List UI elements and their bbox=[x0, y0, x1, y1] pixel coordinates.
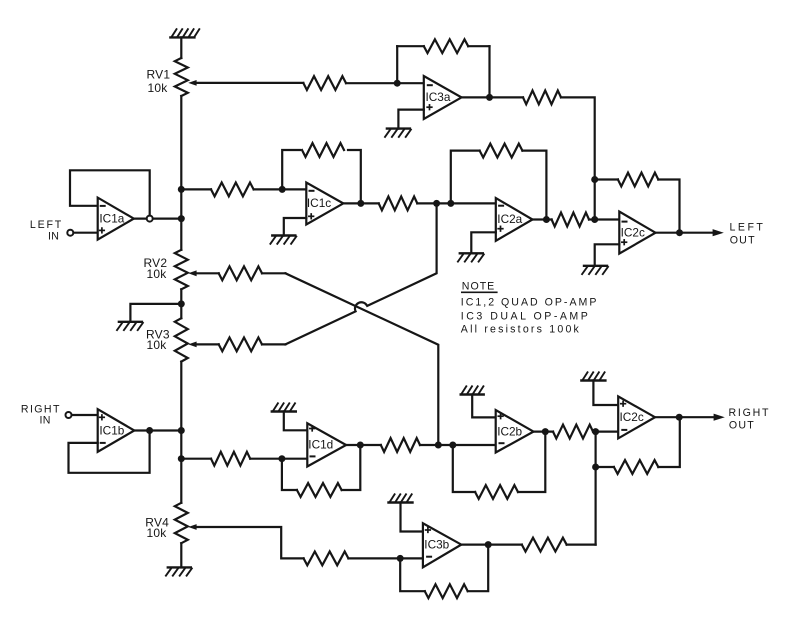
resistor IC2c-right feedback bbox=[614, 460, 658, 474]
svg-text:IC3a: IC3a bbox=[426, 90, 451, 104]
wire feedback to output bbox=[658, 180, 679, 233]
wire summing node to IC2c-right inverting input bbox=[596, 431, 619, 433]
node IC2b input from crossover bbox=[435, 442, 442, 449]
node IC2a feedback tap input side bbox=[447, 200, 454, 207]
ground middle left bbox=[119, 321, 142, 323]
svg-text:RIGHT: RIGHT bbox=[729, 407, 771, 419]
wire IC1c feedback up bbox=[282, 150, 300, 189]
wire IC3a output bbox=[462, 96, 524, 98]
resistor IC1d feedback bbox=[297, 483, 342, 497]
wire IC2c-right non-inverting to ground bbox=[593, 381, 618, 406]
ground IC3b bbox=[389, 501, 413, 503]
svg-text:All resistors 100k: All resistors 100k bbox=[461, 323, 581, 335]
svg-text:IC2b: IC2b bbox=[497, 424, 522, 438]
svg-text:10k: 10k bbox=[148, 81, 169, 95]
svg-text:OUT: OUT bbox=[729, 419, 755, 431]
ground IC2c left bbox=[584, 265, 607, 267]
resistor IC2a feedback bbox=[480, 144, 523, 158]
node IC2a input from crossover bbox=[433, 200, 440, 207]
svg-text:IC3 DUAL OP-AMP: IC3 DUAL OP-AMP bbox=[461, 311, 591, 323]
wire IC2c-right feedback bbox=[596, 466, 614, 468]
ground IC1c bbox=[272, 234, 295, 236]
node IC1d inverting input bbox=[278, 455, 285, 462]
wire IC2b output bbox=[534, 431, 554, 433]
node feedback tap IC2c left bbox=[591, 176, 598, 183]
resistor IC1d output to IC2b bbox=[381, 438, 420, 452]
wire IC2a feedback up bbox=[451, 151, 480, 204]
svg-text:IC2a: IC2a bbox=[497, 212, 522, 226]
svg-text:IC2c: IC2c bbox=[620, 410, 644, 424]
ground bottom (below RV4) bbox=[168, 566, 191, 568]
wire LEFT IN to IC1a non-inverting input bbox=[74, 232, 98, 234]
potentiometer RV1 bbox=[175, 58, 188, 96]
node IC1b feedback tap bbox=[146, 427, 153, 434]
wire resistor to summing node bbox=[589, 218, 595, 220]
wire diagonal RV3 to IC2a with hop (crossover) bbox=[285, 203, 436, 344]
svg-text:RV1: RV1 bbox=[147, 67, 171, 81]
wire ground to RV1 bbox=[180, 37, 182, 58]
node bus to IC1d resistor bbox=[178, 455, 185, 462]
resistor IC3b output to summing node bbox=[522, 538, 567, 552]
node IC3a output bbox=[486, 94, 493, 101]
wire IC2b feedback down bbox=[453, 445, 475, 492]
wire IC1a output to bus bbox=[134, 218, 182, 220]
op-amp IC3a bbox=[424, 76, 462, 119]
ground IC1d bbox=[272, 410, 296, 412]
svg-text:10k: 10k bbox=[147, 526, 168, 540]
op-amp IC1a bbox=[98, 198, 134, 240]
resistor IC2b feedback bbox=[475, 485, 518, 499]
resistor RV3 wiper bbox=[219, 338, 262, 352]
resistor IC2b output to summing node bbox=[553, 425, 593, 439]
svg-text:OUT: OUT bbox=[730, 234, 756, 246]
wire bus RV2 to RV3 bbox=[180, 289, 182, 318]
svg-text:10k: 10k bbox=[147, 267, 168, 281]
wire RIGHT OUT with arrow bbox=[655, 416, 714, 418]
node IC2c-left output bbox=[676, 229, 683, 236]
resistor IC3b feedback bbox=[425, 584, 468, 598]
svg-text:10k: 10k bbox=[147, 338, 168, 352]
op-amp IC3b bbox=[423, 523, 461, 567]
svg-text:IC1c: IC1c bbox=[307, 196, 331, 210]
wire IC1d feedback down bbox=[282, 459, 297, 490]
svg-text:IC2c: IC2c bbox=[621, 225, 645, 239]
wire resistor to IC3a inverting input bbox=[346, 82, 424, 84]
wire IC2a feedback to output bbox=[522, 151, 546, 220]
potentiometer RV2 bbox=[175, 250, 188, 289]
resistor IC3a feedback bbox=[424, 39, 468, 53]
node IC3b inverting input bbox=[397, 555, 404, 562]
wire resistor up to right summing node bbox=[567, 543, 596, 545]
wire resistor to IC1d inverting input bbox=[250, 458, 307, 460]
resistor bus to IC1c bbox=[211, 183, 254, 197]
wire resistor to IC2a inverting input bbox=[417, 202, 496, 204]
wire resistor to IC3b inverting input bbox=[348, 557, 423, 559]
node IC1c inverting input bbox=[279, 186, 286, 193]
resistor IC1c output to IC2a bbox=[379, 197, 418, 211]
wire RV4 wiper to resistor bbox=[197, 527, 304, 558]
resistor bus to IC1d bbox=[211, 452, 250, 466]
node feedback tap IC2c right bbox=[592, 464, 599, 471]
wiper arrow RV3 bbox=[188, 342, 196, 348]
svg-text:NOTE: NOTE bbox=[462, 281, 495, 293]
node IC2c-right output bbox=[676, 414, 683, 421]
wire IC3b output bbox=[461, 543, 522, 545]
node IC1a output on bus bbox=[178, 215, 185, 222]
svg-text:LEFT: LEFT bbox=[30, 219, 63, 231]
svg-text:LEFT: LEFT bbox=[730, 222, 766, 234]
node IC3a inverting input bbox=[394, 80, 401, 87]
node IC2a output feedback tap bbox=[543, 216, 550, 223]
op-amp IC1d bbox=[307, 423, 346, 466]
wire IC2a non-inverting to ground bbox=[471, 232, 496, 253]
wire bus RV3 to RV4 bbox=[180, 362, 182, 503]
op-amp IC1b bbox=[98, 409, 135, 452]
wire bus to middle ground bbox=[130, 304, 181, 322]
wire IC1d non-inverting to ground bbox=[284, 412, 308, 431]
resistor RV4 to IC3b bbox=[304, 552, 349, 566]
resistor IC2c-left feedback bbox=[618, 173, 658, 187]
wiper arrow RV4 bbox=[188, 524, 196, 530]
node IC2b feedback tap input side bbox=[449, 442, 456, 449]
svg-text:IC3b: IC3b bbox=[424, 537, 449, 551]
wire IC2a output bbox=[533, 218, 552, 220]
node summing left IC2c bbox=[591, 216, 598, 223]
node IC1b output on bus bbox=[178, 427, 185, 434]
op-amp IC2c left bbox=[619, 212, 655, 254]
ground top (above RV1) bbox=[170, 36, 194, 38]
wire IC3b feedback down bbox=[400, 558, 425, 591]
svg-text:IC1d: IC1d bbox=[308, 438, 333, 452]
wire feedback down to IC3a output bbox=[488, 46, 490, 97]
wire resistor to corner and down to IC2c left summing node bbox=[561, 97, 595, 219]
wire RV1 wiper to resistor bbox=[196, 82, 303, 84]
node IC2b output feedback tap bbox=[542, 428, 549, 435]
svg-text:IN: IN bbox=[40, 414, 51, 426]
wire diagonal RV2 to IC2b (crossover) bbox=[285, 273, 438, 445]
potentiometer RV4 bbox=[175, 503, 188, 543]
wire IC1d feedback to output bbox=[342, 445, 361, 490]
wire IC3a non-inverting input bbox=[398, 110, 423, 129]
wire feedback up from IC3a input node bbox=[396, 46, 398, 83]
wire feedback resistor to output side bbox=[468, 45, 489, 47]
op-amp IC2a bbox=[496, 198, 533, 241]
wire RV3 resistor to diagonal bbox=[262, 343, 285, 345]
wire IC2c-left non-inverting to ground bbox=[595, 244, 620, 265]
wire summing node to IC2c inverting input bbox=[595, 218, 620, 220]
wire resistor to IC2b inverting input bbox=[420, 444, 496, 446]
wire RV4 bottom to ground bbox=[180, 543, 182, 567]
node IC1c output feedback tap bbox=[357, 200, 364, 207]
wire RV2 resistor to diagonal bbox=[262, 272, 285, 274]
node bus to IC1c resistor bbox=[178, 186, 185, 193]
resistor IC1c feedback bbox=[302, 143, 344, 157]
wiper arrow RV2 bbox=[188, 270, 196, 276]
op-amp IC2b bbox=[496, 410, 534, 453]
ground IC2b bbox=[461, 393, 484, 395]
wire to feedback resistor IC3a bbox=[397, 45, 424, 47]
wire IC1c non-inverting input to ground bbox=[284, 218, 307, 236]
svg-text:IC1,2 QUAD OP-AMP: IC1,2 QUAD OP-AMP bbox=[461, 296, 599, 308]
resistor IC3a output to IC2c bbox=[523, 91, 561, 105]
node summing right IC2c bbox=[592, 428, 599, 435]
resistor RV2 wiper bbox=[219, 266, 262, 280]
wire IC1b output to bus bbox=[134, 429, 181, 431]
op-amp IC1c bbox=[306, 183, 343, 225]
node bus below RV2 bbox=[178, 300, 185, 307]
wire resistor to IC1c inverting input bbox=[254, 188, 307, 190]
ground IC2c right bbox=[581, 379, 605, 381]
wire bus to resistor bbox=[181, 188, 211, 190]
wire IC1c output bbox=[343, 202, 378, 204]
wire resistor to right summing node bbox=[593, 431, 596, 433]
wire feedback to output bbox=[658, 417, 680, 467]
wire IC1a feedback loop bbox=[70, 170, 150, 215]
op-amp IC2c right bbox=[618, 396, 655, 438]
wire IC1d output bbox=[346, 444, 381, 446]
svg-text:IC1a: IC1a bbox=[99, 211, 124, 225]
svg-text:IC1b: IC1b bbox=[99, 423, 124, 437]
wire IC2b non-inverting to ground bbox=[472, 395, 496, 418]
ground IC2a bbox=[460, 252, 483, 254]
junction circle IC1a feedback tap bbox=[147, 216, 153, 222]
wire bus to resistor bbox=[181, 458, 211, 460]
wire IC1c feedback to output bbox=[348, 150, 361, 203]
wire LEFT OUT with arrow bbox=[656, 232, 713, 234]
wiper arrow RV1 bbox=[188, 80, 196, 86]
node IC3b output feedback tap bbox=[485, 541, 492, 548]
wire RIGHT IN to IC1b non-inverting input bbox=[72, 414, 98, 416]
potentiometer RV3 bbox=[175, 318, 188, 361]
wire IC1b feedback loop bbox=[69, 431, 150, 473]
wire IC2b feedback to output bbox=[518, 432, 545, 492]
wire summing vertical down to IC3b output line bbox=[594, 432, 596, 545]
ground IC3a bbox=[387, 127, 410, 129]
svg-text:IN: IN bbox=[48, 230, 59, 242]
resistor RV1-wiper to IC3a bbox=[303, 76, 346, 90]
resistor IC2a output to summing node bbox=[552, 213, 589, 227]
wire RV1 bottom down bus bbox=[180, 96, 182, 250]
wire IC3b non-inverting to ground bbox=[401, 503, 423, 532]
node IC1d output feedback tap bbox=[357, 442, 364, 449]
wire IC3b feedback to output bbox=[468, 545, 489, 592]
wire IC2c-left feedback bbox=[595, 178, 618, 180]
